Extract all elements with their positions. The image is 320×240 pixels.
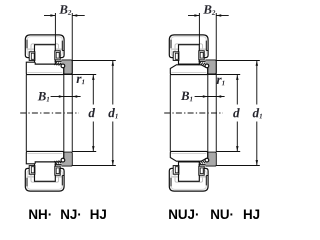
svg-text:d: d bbox=[88, 105, 95, 120]
outer ring pocket shading band bbox=[171, 176, 206, 178]
d1 dimension line bbox=[112, 61, 114, 105]
d1 leader bottom bbox=[72, 165, 116, 167]
B2 dimension line bbox=[44, 15, 55, 17]
outer ring rib face left bbox=[170, 178, 172, 187]
angle ring HJ (gray) bbox=[58, 152, 73, 166]
rib edge line bbox=[55, 60, 62, 62]
hatch ticks bbox=[198, 161, 201, 164]
inner ring bbox=[170, 65, 207, 75]
caption NH NJ HJ bbox=[28, 208, 52, 221]
angle ring outline bbox=[62, 60, 73, 74]
outer ring (x+144.0) bbox=[169, 168, 208, 191]
hatch ticks bbox=[198, 62, 201, 65]
outer ring pocket shading band bbox=[27, 48, 62, 50]
inner ring bbox=[26, 62, 64, 74]
cage right bbox=[199, 51, 204, 60]
outer ring pocket shading band bbox=[171, 48, 206, 50]
d1 leader top bbox=[72, 60, 116, 62]
roller bbox=[35, 45, 56, 64]
svg-text:d: d bbox=[233, 105, 240, 120]
roller bbox=[35, 162, 56, 181]
angle ring outline bbox=[62, 152, 73, 166]
outer ring shading line bbox=[27, 37, 62, 56]
d dimension line bbox=[236, 75, 238, 105]
B2/B1 extension line right bbox=[215, 13, 217, 152]
angle ring outline bbox=[206, 152, 217, 166]
B2 extension line left bbox=[54, 13, 56, 45]
B2/B1 extension line right bbox=[71, 13, 73, 152]
outer ring rib face right bbox=[205, 176, 207, 186]
roller bbox=[179, 45, 200, 64]
outer ring shading line bbox=[171, 170, 206, 189]
outer ring raceway shading bbox=[31, 175, 59, 183]
B2 dimension line bbox=[188, 15, 199, 17]
rib edge line bbox=[199, 60, 206, 62]
d1 leader bottom bbox=[216, 165, 259, 167]
roller bbox=[179, 162, 200, 181]
bore edge line left bbox=[169, 75, 171, 152]
d1 leader top bbox=[216, 60, 259, 62]
angle ring HJ (gray) bbox=[202, 60, 217, 74]
inner ring bbox=[26, 151, 64, 163]
outer ring shading line bbox=[27, 170, 62, 189]
inner ring shading line bbox=[27, 72, 62, 74]
outer ring pocket shading band bbox=[27, 176, 62, 178]
cage right bbox=[55, 51, 60, 60]
fillet circle r1 bbox=[61, 158, 65, 162]
hatch ticks bbox=[54, 161, 57, 164]
angle ring HJ (gray) bbox=[58, 60, 73, 74]
outer ring rib face right bbox=[61, 176, 63, 186]
outer ring (x+144.0) bbox=[169, 35, 208, 58]
outer ring shading line bbox=[171, 37, 206, 56]
d leader bottom bbox=[216, 151, 240, 153]
outer ring rib face right bbox=[61, 41, 63, 51]
inner ring shading line bbox=[27, 152, 62, 154]
cage left bbox=[29, 166, 35, 175]
d dimension line bbox=[92, 75, 94, 105]
outer ring raceway shading bbox=[175, 44, 203, 52]
hatch ticks bbox=[54, 62, 57, 65]
d leader top bbox=[208, 74, 240, 76]
B1 dimension line bbox=[51, 96, 64, 98]
rib edge line bbox=[199, 164, 206, 166]
inner ring shading line bbox=[171, 72, 206, 74]
outer ring rib face right bbox=[205, 41, 207, 51]
bearing section bottom half (mirror) bbox=[25, 151, 72, 191]
bore edge line right bbox=[63, 68, 65, 158]
caption NUJ NU HJ bbox=[168, 208, 199, 221]
fillet circle r1 bbox=[205, 64, 209, 68]
angle ring HJ (gray) bbox=[202, 152, 217, 166]
outer ring raceway shading bbox=[175, 175, 203, 183]
B1 dimension line bbox=[195, 96, 208, 98]
cage left bbox=[173, 52, 179, 61]
bore edge line left bbox=[25, 75, 27, 152]
bearing section bottom half (mirror) bbox=[169, 151, 216, 191]
outer ring rib face left bbox=[170, 40, 172, 49]
cage right bbox=[55, 166, 60, 175]
fillet circle r1 bbox=[205, 158, 209, 162]
outer ring (x+0.0) bbox=[25, 168, 64, 191]
inner ring shading line bbox=[171, 152, 206, 154]
d leader top bbox=[64, 74, 96, 76]
d leader bottom bbox=[72, 151, 96, 153]
cage left bbox=[173, 166, 179, 175]
rib edge line bbox=[55, 164, 62, 166]
inner ring bbox=[170, 151, 207, 161]
outer ring raceway shading bbox=[31, 44, 59, 52]
fillet circle r1 bbox=[61, 64, 65, 68]
centerline bbox=[164, 112, 223, 114]
d1 dimension line bbox=[256, 61, 258, 105]
outer ring rib face left bbox=[26, 178, 28, 187]
bore edge line right bbox=[207, 68, 209, 158]
B2 extension line left bbox=[198, 13, 200, 45]
cage right bbox=[199, 166, 204, 175]
centerline bbox=[20, 112, 79, 114]
outer ring rib face left bbox=[26, 40, 28, 49]
cage left bbox=[29, 52, 35, 61]
outer ring (x+0.0) bbox=[25, 35, 64, 58]
angle ring outline bbox=[206, 60, 217, 74]
